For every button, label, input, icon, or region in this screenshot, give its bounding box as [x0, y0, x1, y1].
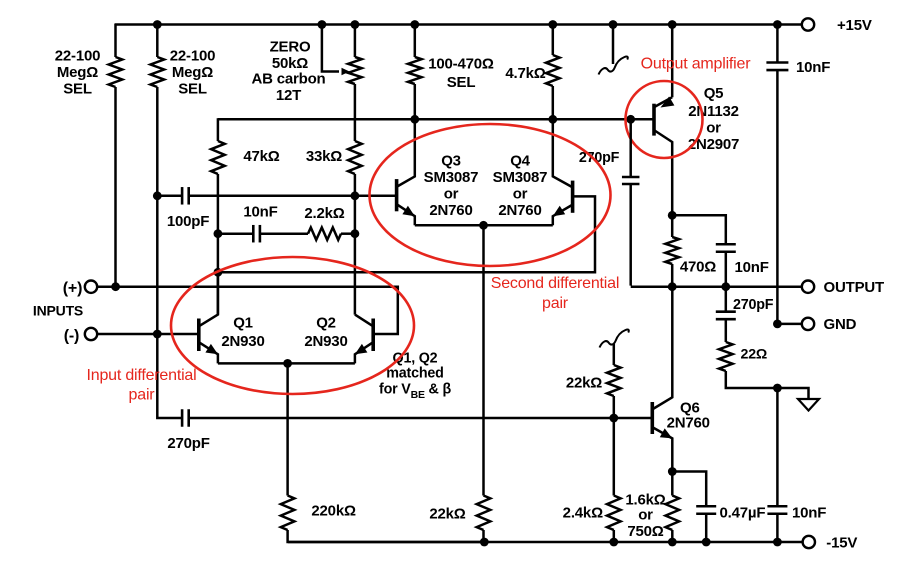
wire: zobel middle lead: [725, 319, 728, 342]
junction on top rail at 10nF: [773, 20, 782, 29]
power terminal -15V: [803, 536, 815, 548]
svg-text:220kΩ: 220kΩ: [311, 502, 356, 519]
resistor 33k: [348, 141, 362, 174]
ground terminal GND: [802, 318, 814, 330]
wire: 47k bottom lead to 10nF node: [217, 174, 220, 234]
svg-text:or: or: [444, 185, 459, 202]
svg-text:+15V: +15V: [837, 17, 872, 34]
junction on top rail at tap squiggle: [609, 20, 618, 29]
svg-text:2N760: 2N760: [667, 415, 710, 432]
svg-text:10nF: 10nF: [792, 505, 826, 522]
wire: 33k bottom lead: [354, 174, 357, 196]
capacitor 270pF (zobel): [716, 310, 736, 313]
svg-text:22-100: 22-100: [170, 47, 216, 64]
capacitor 10nF (lag): [252, 225, 255, 243]
wire: stub below rail: [612, 25, 615, 65]
svg-text:Input differential: Input differential: [87, 367, 197, 384]
svg-text:10nF: 10nF: [735, 259, 769, 276]
svg-text:(+): (+): [63, 280, 82, 297]
svg-text:SM3087: SM3087: [493, 169, 548, 186]
svg-text:2N1132: 2N1132: [688, 103, 739, 120]
svg-text:Output amplifier: Output amplifier: [641, 56, 752, 73]
capacitor 100pF: [181, 187, 184, 205]
junction ground-symbol node: [773, 384, 782, 393]
svg-text:2N760: 2N760: [498, 202, 541, 219]
svg-text:2N2907: 2N2907: [688, 136, 739, 153]
wire: first stage tail down to 220k: [286, 363, 289, 495]
svg-text:22kΩ: 22kΩ: [566, 374, 602, 391]
svg-text:-15V: -15V: [826, 535, 857, 552]
wire: lag network middle segment: [260, 232, 308, 235]
wire: R-A bottom lead to (+) input node: [114, 87, 117, 287]
svg-text:2N930: 2N930: [304, 333, 347, 350]
wire: second stage tail down to 22k: [482, 225, 485, 495]
svg-text:270pF: 270pF: [167, 435, 209, 452]
capacitor 10nF (top right): [766, 61, 788, 64]
resistor 47k: [211, 141, 225, 174]
transistor Q4 collector: [553, 119, 572, 187]
junction on top rail at 4.7k: [548, 20, 557, 29]
svg-text:MegΩ: MegΩ: [172, 64, 213, 81]
junction 33k / Q3 base / 100pF: [351, 191, 360, 200]
wire: down to Q1 collector line: [217, 234, 220, 273]
highlight ellipse: second differential pair: [370, 124, 611, 266]
svg-text:0.47µF: 0.47µF: [720, 505, 766, 522]
svg-text:22Ω: 22Ω: [741, 347, 768, 363]
svg-text:10nF: 10nF: [243, 203, 277, 220]
transistor Q3 base bar: [395, 179, 399, 211]
svg-text:2N930: 2N930: [221, 333, 264, 350]
svg-text:33kΩ: 33kΩ: [306, 148, 342, 165]
transistor Q2 emitter arrow: [355, 344, 368, 354]
junction Q6 base / 22k / 2.4k: [609, 414, 618, 423]
hand-drawn tap squiggle top: [599, 57, 628, 75]
svg-text:Q2: Q2: [316, 314, 336, 331]
capacitor 270pF (input): [181, 409, 184, 427]
transistor Q4 base bar: [571, 181, 575, 213]
wire: Q3-Q4 emitter bus: [415, 224, 553, 227]
wire: column down then right to 270pF input cap: [157, 334, 181, 418]
wiper arrowhead into pot: [342, 68, 350, 75]
wire: 22k top stub: [613, 344, 616, 365]
wire: output bus: [631, 285, 802, 288]
wire: to chassis ground symbol: [777, 388, 808, 399]
wire: 47k top lead from bias bus corner: [217, 118, 220, 141]
svg-text:SEL: SEL: [447, 74, 476, 91]
svg-text:OUTPUT: OUTPUT: [824, 279, 885, 296]
wire: Q4 base link: [218, 196, 595, 272]
junction on top rail at wiper: [318, 20, 327, 29]
svg-text:SEL: SEL: [178, 80, 207, 97]
wire: (+) input to Q2 base: [97, 287, 398, 334]
transistor Q2 emitter: [355, 343, 373, 364]
wire: 4.7k bottom lead to Q4 collector node: [552, 86, 555, 119]
junction emitter bus to 220k tail: [283, 359, 292, 368]
wire: 0.47uF bottom lead: [705, 514, 708, 542]
svg-text:22kΩ: 22kΩ: [429, 506, 465, 523]
svg-text:SEL: SEL: [63, 80, 92, 97]
wire: second-stage bias bus y=119: [218, 118, 653, 121]
wire: down right column to bottom 10nF: [776, 388, 779, 506]
resistor 100-470 SEL: [408, 57, 422, 84]
power terminal +15V: [802, 18, 814, 30]
junction bias bus / 4.7k / Q4 collector: [548, 115, 557, 124]
junction output / 10nF / 270pF: [721, 282, 730, 291]
transistor Q2 collector: [355, 315, 373, 326]
svg-text:Q4: Q4: [510, 152, 530, 169]
transistor Q4 emitter: [553, 205, 572, 225]
wire: node down to 2.2k junction: [354, 196, 357, 234]
transistor Q5 emitter diagonal: [655, 97, 672, 106]
wire: 4.7k top lead: [552, 25, 555, 56]
junction bias bus / 270pF feedback: [626, 115, 635, 124]
junction Q5 collector / 470 / 10nF: [668, 211, 677, 220]
junction emitter bus to 22k tail: [479, 221, 488, 230]
wire: lag network left segment: [218, 232, 253, 235]
svg-text:Q1: Q1: [233, 314, 253, 331]
junction on top rail at R-B: [153, 20, 162, 29]
svg-text:2.2kΩ: 2.2kΩ: [304, 205, 344, 222]
capacitor 10nF (bottom): [767, 505, 787, 508]
svg-text:100pF: 100pF: [167, 213, 209, 230]
svg-text:2.4kΩ: 2.4kΩ: [563, 505, 603, 522]
wire: -15V bottom rail: [288, 541, 802, 544]
junction bottom 10nF on rail: [773, 538, 782, 547]
svg-text:pair: pair: [542, 295, 569, 312]
wire: 220k bottom to -15V rail: [288, 530, 485, 542]
junction on top rail at pot: [351, 20, 360, 29]
highlight circle: output amplifier: [626, 81, 703, 158]
hand-drawn tap squiggle at 22k: [600, 330, 629, 348]
svg-text:SM3087: SM3087: [424, 169, 479, 186]
junction on (-) input wire: [153, 330, 162, 339]
wire: Q3 base wire to base: [189, 195, 397, 198]
transistor Q1 emitter: [199, 343, 218, 364]
junction on top rail at Q5 emitter: [668, 20, 677, 29]
wire: pot wiper from rail: [322, 25, 339, 72]
ground symbol (chassis): [798, 399, 819, 411]
svg-text:Q5: Q5: [704, 85, 724, 102]
resistor 470: [665, 237, 679, 264]
svg-text:AB carbon: AB carbon: [251, 71, 325, 88]
wire: pot bottom lead down to 33k: [354, 84, 357, 141]
transistor Q6 base bar: [650, 402, 654, 434]
wire: 2.4k leads: [613, 418, 616, 496]
junction Q1 collector / crossover line: [214, 268, 223, 277]
wire: column down to (-) input wire: [156, 196, 159, 334]
wire: pot top lead: [354, 25, 357, 58]
wire: R-B top lead: [156, 25, 159, 58]
junction node 100pF left: [153, 191, 162, 200]
highlight ellipse: input differential pair: [171, 257, 414, 394]
svg-text:or: or: [638, 507, 653, 524]
junction 0.47uF on rail: [702, 538, 711, 547]
wire: Q5 emitter from +15V rail: [671, 25, 674, 98]
junction 22k tail on -15V rail: [480, 538, 489, 547]
wire: Q3 base wire left segment: [157, 195, 182, 198]
transistor Q5 base bar: [652, 104, 656, 136]
junction output / 470 / Q6 collector: [668, 282, 677, 291]
potentiometer ZERO 50k body: [348, 57, 362, 84]
transistor Q3 emitter arrow: [402, 206, 414, 217]
transistor Q5 collector: [655, 131, 673, 216]
resistor 22-100 Meg SEL #1: [109, 57, 123, 87]
transistor Q3 collector: [397, 119, 415, 186]
wire: R-A top lead from +15V rail: [114, 24, 117, 58]
junction 47k / 10nF-2.2k wire: [214, 229, 223, 238]
wire: bottom 10nF lead to -15V rail: [776, 514, 779, 542]
wire: GND stub: [777, 323, 801, 326]
svg-text:Q3: Q3: [441, 152, 461, 169]
input terminal (+): [85, 281, 97, 293]
transistor Q6 collector: [653, 287, 672, 409]
wire: 10nF bottom lead down to GND node: [776, 70, 779, 324]
wire: 100-470 bottom lead to bias wire: [414, 84, 417, 119]
svg-text:pair: pair: [129, 386, 156, 403]
svg-text:470Ω: 470Ω: [680, 258, 716, 275]
resistor 22 ohm: [719, 342, 733, 371]
junction (+) input / R-A: [111, 282, 120, 291]
svg-text:ZERO: ZERO: [270, 39, 311, 56]
capacitor 0.47uF: [696, 505, 716, 508]
transistor Q3 emitter: [397, 205, 415, 226]
wire: (-) input to Q1 base: [97, 333, 198, 336]
svg-text:MegΩ: MegΩ: [57, 64, 98, 81]
capacitor 10nF (snubber): [716, 243, 736, 246]
resistor 22k (Q6 base): [607, 365, 621, 396]
wire: 10nF snubber bottom to output: [725, 252, 728, 287]
svg-text:Second differential: Second differential: [491, 275, 619, 292]
wire: to 10nF snubber: [672, 215, 726, 244]
transistor Q4 emitter arrow: [553, 206, 565, 217]
svg-text:(-): (-): [64, 328, 79, 345]
svg-text:750Ω: 750Ω: [627, 523, 663, 540]
svg-text:or: or: [706, 119, 721, 136]
svg-text:270pF: 270pF: [733, 297, 774, 313]
svg-text:50kΩ: 50kΩ: [272, 55, 308, 72]
transistor Q5 emitter arrow (PNP): [661, 97, 675, 108]
svg-text:10nF: 10nF: [796, 59, 830, 76]
resistor 1.6k or 750: [666, 496, 680, 531]
wire: 270pF feedback top lead: [629, 119, 632, 177]
wire: +15V top rail: [115, 23, 802, 26]
svg-text:GND: GND: [824, 316, 857, 333]
wire: 270pF to Q6 base long wire: [189, 417, 652, 420]
resistor 4.7k: [546, 55, 560, 86]
wire: 1.6k leads: [671, 472, 674, 496]
input terminal (-): [85, 328, 97, 340]
svg-text:INPUTS: INPUTS: [33, 302, 83, 318]
wire: 270pF feedback down to output wire: [629, 184, 632, 286]
transistor Q1 emitter arrow: [205, 344, 218, 354]
svg-text:matched: matched: [386, 366, 443, 382]
svg-text:22-100: 22-100: [55, 47, 101, 64]
transistor Q6 emitter: [653, 428, 672, 472]
junction on top rail at 100-470: [410, 20, 419, 29]
wire: Q1-Q2 emitter bus: [218, 362, 355, 365]
wire: 10nF top lead: [776, 25, 779, 63]
svg-text:2N760: 2N760: [429, 202, 472, 219]
resistor 2.2k: [308, 228, 341, 240]
capacitor 270pF (feedback): [622, 176, 640, 179]
transistor Q2 base bar: [371, 319, 375, 352]
transistor Q1 base bar: [197, 319, 201, 352]
output terminal OUTPUT: [802, 281, 814, 293]
wire: R-B bottom lead down to 100pF node: [156, 87, 159, 196]
wire: Q2 collector vertical: [354, 234, 357, 315]
resistor 220k: [281, 496, 295, 531]
svg-text:12T: 12T: [276, 87, 301, 104]
junction 2.2k right end: [351, 229, 360, 238]
wire: 270pF zobel top lead: [725, 287, 728, 312]
resistor 22k (tail): [477, 496, 491, 531]
wire: 22k tail bottom lead: [482, 530, 485, 542]
svg-text:100-470Ω: 100-470Ω: [428, 56, 494, 73]
wire: 22k bottom lead: [613, 396, 616, 418]
transistor Q6 emitter arrow: [660, 428, 673, 438]
wire: 100-470 top lead: [414, 25, 417, 58]
wire: lag network right segment: [341, 232, 355, 235]
junction GND pickoff: [773, 320, 782, 329]
junction 1.6k on rail: [668, 538, 677, 547]
junction 2.4k on -15V rail: [609, 538, 618, 547]
wire: 470 leads: [671, 215, 674, 237]
svg-text:or: or: [513, 185, 528, 202]
wire: Q5 base from bias bus: [631, 118, 653, 121]
resistor 2.4k: [607, 496, 621, 531]
wire: zobel bottom to ground node: [726, 371, 778, 388]
wire: to 0.47uF: [672, 472, 706, 507]
junction bias bus / 100-470 / Q3 collector: [410, 115, 419, 124]
svg-text:47kΩ: 47kΩ: [243, 148, 279, 165]
svg-text:4.7kΩ: 4.7kΩ: [505, 65, 545, 82]
resistor 22-100 Meg SEL #2: [151, 57, 165, 87]
transistor Q1 collector: [199, 272, 218, 326]
junction Q6 emitter / 1.6k / 0.47uF: [668, 467, 677, 476]
wire: Q1 collector vertical: [217, 272, 220, 314]
